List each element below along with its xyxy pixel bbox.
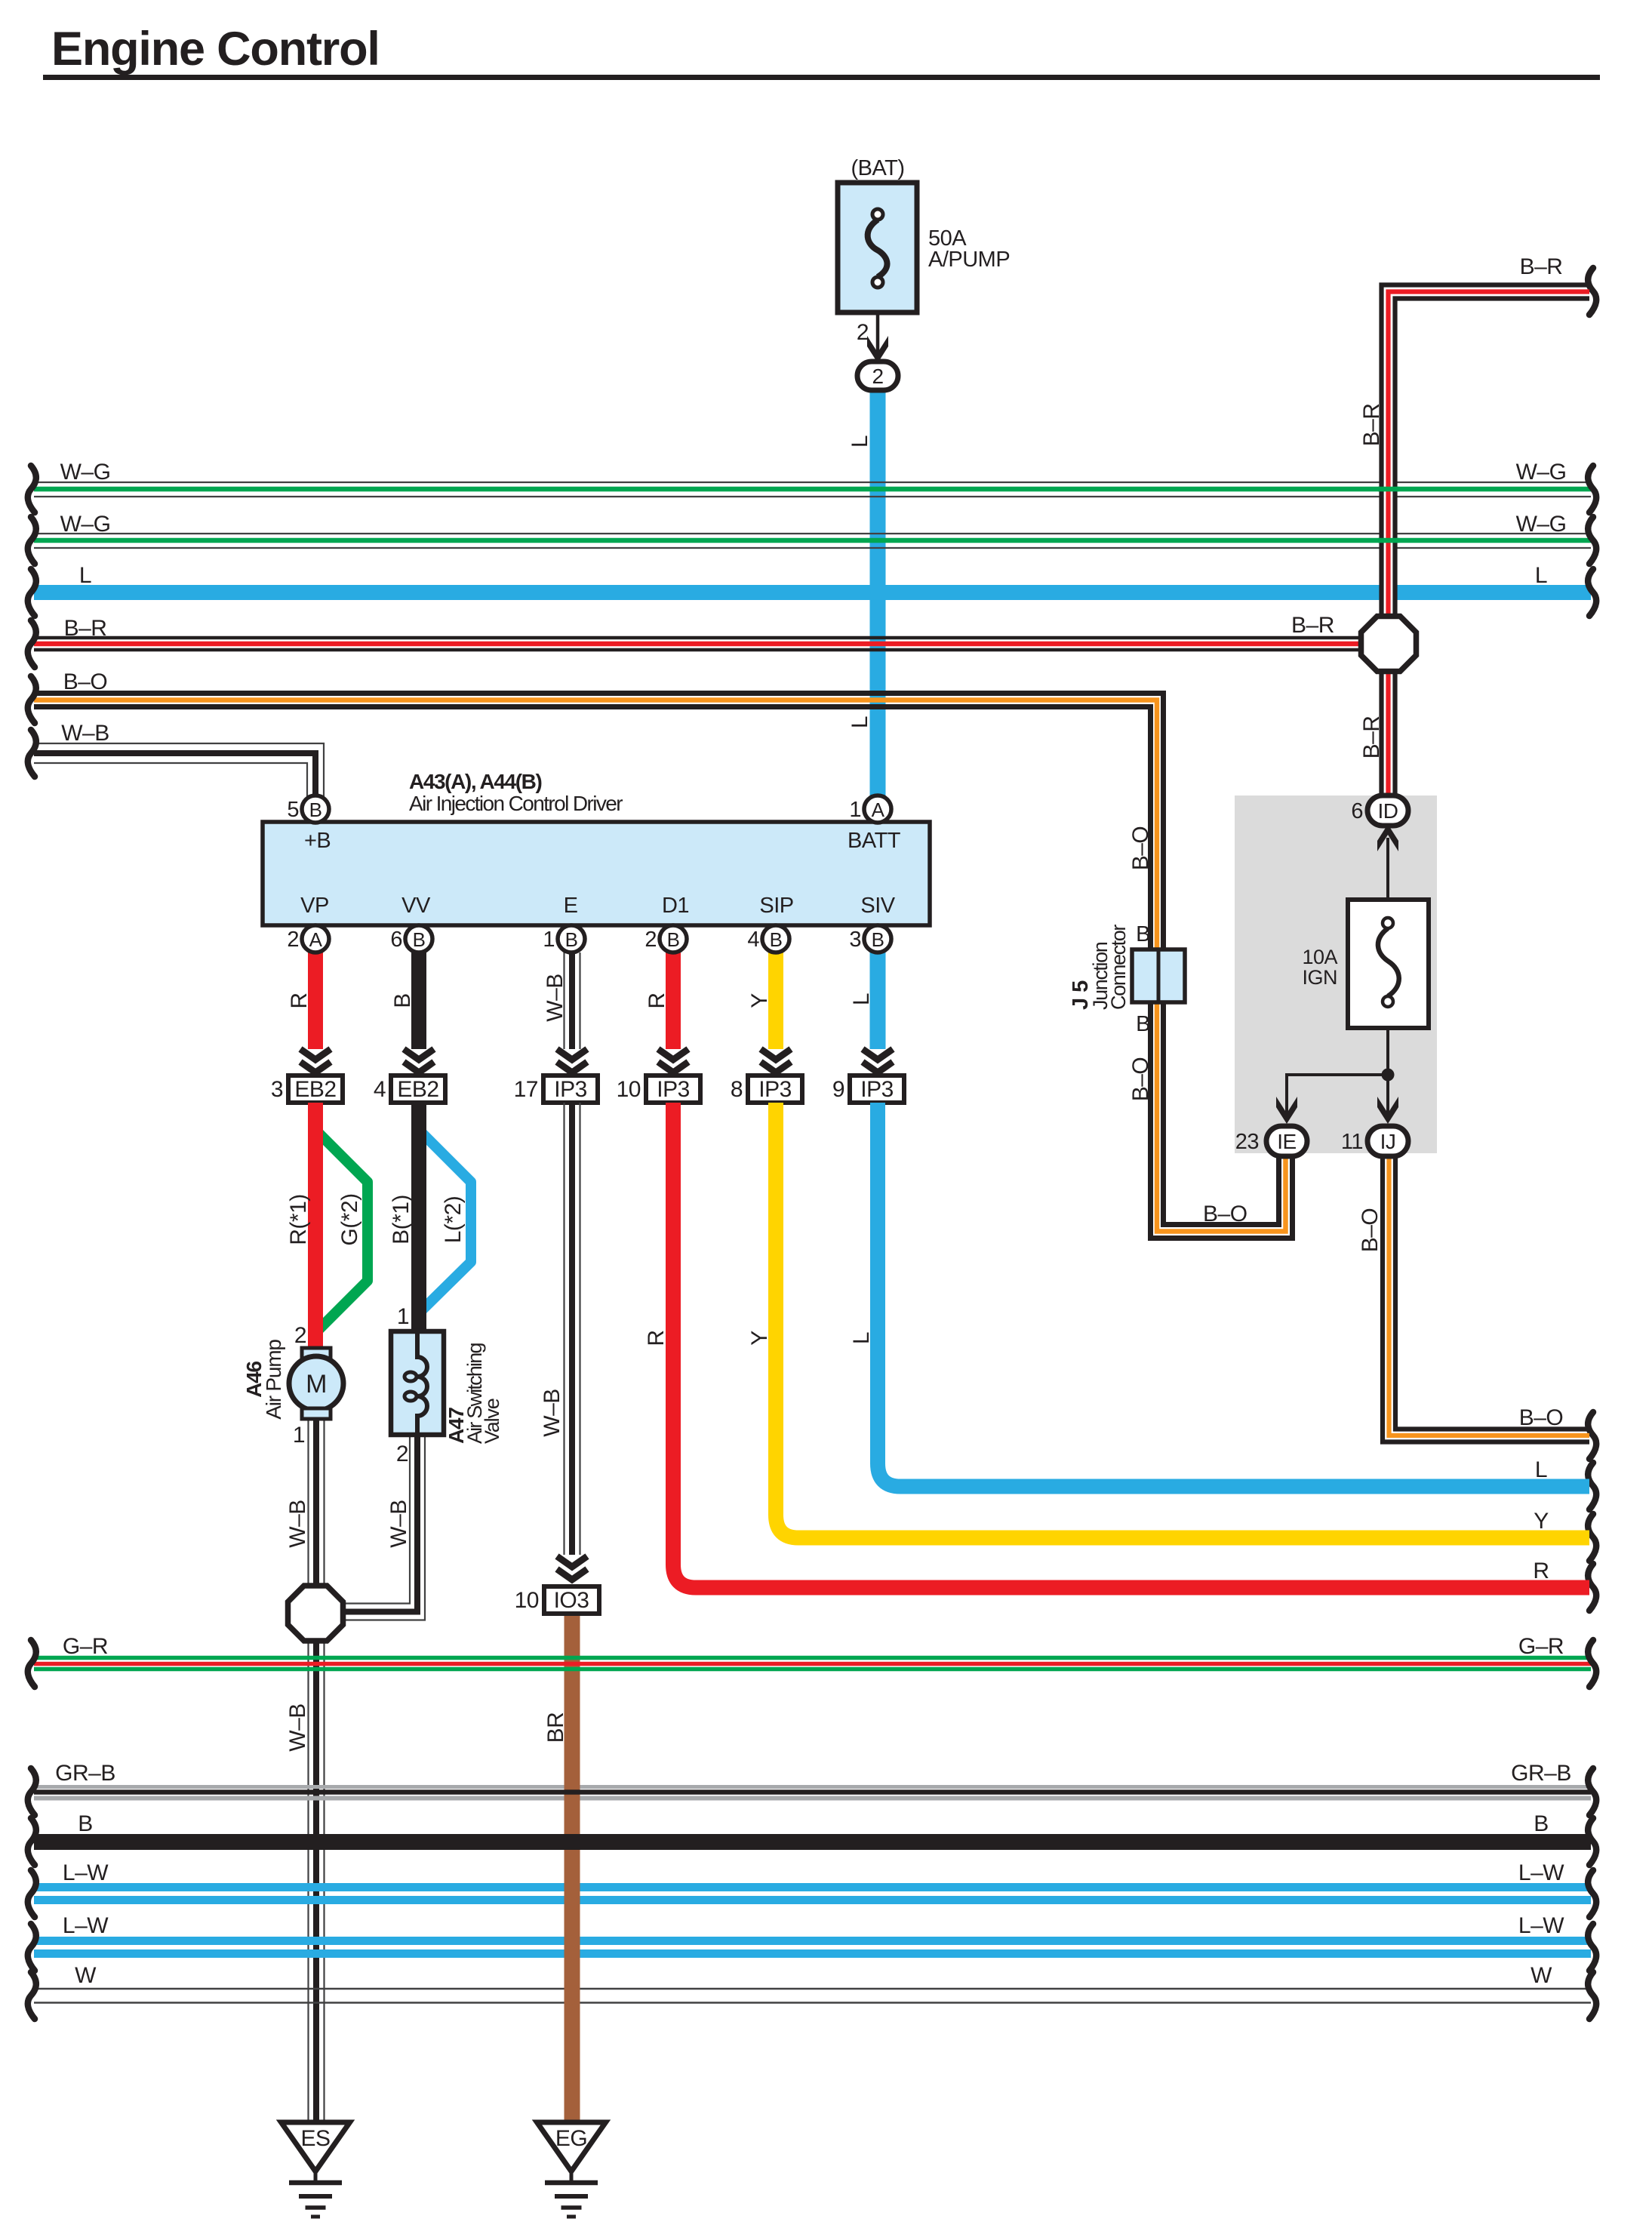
- svg-text:B: B: [872, 928, 884, 951]
- wire W-B bus to pin 5B: [34, 743, 324, 797]
- svg-text:1: 1: [849, 798, 861, 822]
- svg-text:W–B: W–B: [543, 974, 568, 1022]
- svg-text:BR: BR: [543, 1712, 568, 1743]
- svg-text:L–W: L–W: [63, 1913, 109, 1938]
- connector box IP3 pin 10: [646, 1075, 700, 1103]
- white underlay B-R vertical: [1380, 305, 1397, 614]
- wire B-R bus: [34, 636, 1362, 640]
- svg-text:B: B: [667, 928, 680, 951]
- svg-text:IP3: IP3: [860, 1077, 894, 1102]
- arrow chevron SIP wire: [761, 1049, 791, 1060]
- svg-text:L: L: [79, 563, 91, 588]
- fuse 10A IGN box: [1348, 900, 1429, 1028]
- pin circle 4 B SIP: [762, 925, 789, 952]
- svg-text:9: 9: [832, 1077, 844, 1102]
- junction octagon right B-R: [1361, 617, 1417, 672]
- wire branch to IE: [1287, 1075, 1388, 1114]
- arrow chevron VV wire: [404, 1049, 434, 1060]
- motor A46 lower tab: [302, 1408, 331, 1419]
- wire B-O bus through J5 to IE: [34, 694, 1279, 1225]
- break symbol left L-W bus 2: [28, 1924, 36, 1971]
- svg-text:Air Pump: Air Pump: [262, 1340, 285, 1420]
- connector box IP3 pin 8: [748, 1075, 802, 1103]
- junction connector J5 box: [1132, 949, 1185, 1002]
- connector box IP3 pin 9: [850, 1075, 904, 1103]
- svg-text:W–B: W–B: [285, 1703, 310, 1752]
- break symbol right R lower wire: [1588, 1564, 1596, 1611]
- svg-text:6: 6: [390, 928, 402, 952]
- svg-text:W–B: W–B: [61, 721, 109, 746]
- pin circle 6 B VV: [405, 925, 432, 952]
- svg-text:2: 2: [294, 1323, 306, 1348]
- svg-text:IE: IE: [1277, 1130, 1296, 1153]
- wire Y from SIP pin: [768, 952, 783, 1049]
- pin circle 2 A VP: [302, 925, 329, 952]
- pin circle 1 A BATT: [864, 795, 891, 823]
- break symbol right B bus: [1588, 1818, 1596, 1865]
- ground ES: [281, 2122, 350, 2171]
- wire G bypass branch: [315, 1130, 368, 1331]
- break symbol left W-G bus 1: [28, 466, 36, 512]
- break symbol left L bus: [28, 569, 36, 616]
- svg-text:EG: EG: [555, 2126, 587, 2151]
- wire G-R bus: [34, 1656, 1591, 1660]
- junction octagon left W-B: [288, 1586, 343, 1641]
- wire GR-B bus gray stripes: [34, 1785, 1591, 1789]
- wire R from VP pin: [308, 952, 323, 1049]
- svg-text:Y: Y: [747, 993, 772, 1008]
- connector box IP3 pin 17: [543, 1075, 598, 1103]
- svg-text:W–G: W–G: [60, 460, 111, 485]
- svg-text:R: R: [1533, 1559, 1549, 1583]
- svg-text:W: W: [75, 1963, 97, 1988]
- pin circle 3 B SIV: [864, 925, 891, 952]
- wire L SIV to right: [878, 1103, 1589, 1487]
- wire B EB2 to valve: [411, 1103, 426, 1332]
- connector oval IE pin 23: [1266, 1126, 1307, 1156]
- svg-text:5: 5: [287, 798, 299, 822]
- break symbol right W bus: [1588, 1972, 1596, 2019]
- break symbol left W-B bus: [28, 730, 36, 777]
- wire L-W bus 2: [34, 1937, 1591, 1945]
- pin circle 5 B plus-B: [302, 795, 329, 823]
- svg-text:3: 3: [849, 928, 861, 952]
- svg-text:L: L: [848, 435, 872, 448]
- svg-text:4: 4: [374, 1077, 386, 1102]
- svg-text:3: 3: [271, 1077, 283, 1102]
- svg-text:A: A: [872, 799, 885, 821]
- svg-text:W–G: W–G: [60, 512, 111, 537]
- svg-text:B–R: B–R: [1520, 254, 1563, 279]
- svg-text:SIP: SIP: [759, 894, 793, 918]
- wire B bus: [34, 1834, 1591, 1850]
- break symbol right L-W bus 2: [1588, 1924, 1596, 1971]
- svg-text:Air Injection Control Driver: Air Injection Control Driver: [409, 792, 623, 815]
- svg-text:L–W: L–W: [1518, 1860, 1564, 1885]
- pin circle 1 B E: [558, 925, 585, 952]
- wire W-B IP3 to IO3 arrow: [563, 1103, 565, 1555]
- svg-text:B–O: B–O: [1203, 1202, 1247, 1226]
- wire W bus: [34, 1988, 1591, 1989]
- wire R D1 to right: [673, 1103, 1589, 1588]
- svg-text:4: 4: [747, 928, 759, 952]
- arrow chevron IO3: [557, 1556, 587, 1567]
- svg-text:B(*1): B(*1): [389, 1195, 414, 1245]
- connector box EB2 pin 4: [391, 1075, 445, 1103]
- break symbol left W-G bus 2: [28, 517, 36, 564]
- svg-text:G–R: G–R: [63, 1634, 108, 1659]
- arrow solid up ID: [1377, 824, 1398, 851]
- svg-text:Engine Control: Engine Control: [51, 23, 380, 75]
- break symbol right L bus: [1588, 569, 1596, 616]
- svg-text:2: 2: [644, 928, 657, 952]
- break symbol right B-O lower wire: [1588, 1412, 1596, 1459]
- svg-text:W: W: [1530, 1963, 1552, 1988]
- wire L from SIV pin: [870, 952, 886, 1049]
- svg-text:R: R: [644, 1330, 669, 1346]
- svg-text:10A: 10A: [1302, 946, 1337, 968]
- svg-text:D1: D1: [662, 894, 689, 918]
- break symbol right W-G bus 2: [1588, 517, 1596, 564]
- break symbol left GR-B bus: [28, 1768, 36, 1815]
- svg-text:EB2: EB2: [294, 1077, 336, 1102]
- wire ID arrow to fuse: [1386, 838, 1389, 900]
- motor A46 upper tab: [302, 1348, 331, 1359]
- svg-text:IP3: IP3: [758, 1077, 792, 1102]
- connector box EB2 pin 3: [288, 1075, 343, 1103]
- svg-text:G–R: G–R: [1518, 1634, 1564, 1659]
- valve A47 coil: [417, 1331, 427, 1435]
- break symbol right B-R top wire: [1588, 268, 1596, 315]
- wire L vertical fuse to BATT: [870, 385, 886, 797]
- svg-text:IGN: IGN: [1302, 966, 1337, 989]
- svg-text:Y: Y: [1534, 1509, 1549, 1534]
- svg-text:W–B: W–B: [540, 1389, 565, 1437]
- svg-text:B: B: [1136, 922, 1150, 946]
- svg-text:VV: VV: [401, 894, 431, 918]
- svg-text:IP3: IP3: [657, 1077, 690, 1102]
- fuse 50A A/PUMP box: [838, 183, 917, 312]
- svg-text:Y: Y: [747, 1331, 772, 1346]
- break symbol right L lower wire: [1588, 1463, 1596, 1509]
- connector box IO3 pin 10: [544, 1586, 599, 1614]
- break symbol right W-G bus 1: [1588, 466, 1596, 512]
- svg-text:IJ: IJ: [1380, 1130, 1396, 1153]
- svg-text:R(*1): R(*1): [286, 1194, 311, 1245]
- wire B-O IJ to right: [1383, 1158, 1589, 1442]
- svg-text:B–O: B–O: [1128, 1057, 1153, 1102]
- wire fuse to junction dot: [1386, 1028, 1389, 1115]
- svg-text:2: 2: [287, 928, 299, 952]
- wire L bus: [34, 585, 1591, 600]
- svg-text:B–O: B–O: [63, 669, 108, 694]
- svg-text:B–R: B–R: [1359, 404, 1384, 447]
- svg-text:W–B: W–B: [386, 1500, 411, 1548]
- svg-text:2: 2: [872, 365, 883, 388]
- svg-text:B: B: [1136, 1012, 1150, 1036]
- svg-text:1: 1: [543, 928, 555, 952]
- arrow solid down IJ: [1377, 1097, 1398, 1124]
- fuse 10A element: [1378, 928, 1399, 996]
- svg-text:1: 1: [293, 1423, 305, 1448]
- break symbol left W bus: [28, 1972, 36, 2019]
- svg-text:GR–B: GR–B: [1511, 1761, 1571, 1786]
- svg-text:B: B: [309, 799, 322, 821]
- svg-text:B: B: [565, 928, 578, 951]
- wire L-W bus 1: [34, 1883, 1591, 1891]
- wire W-B valve to octagon: [343, 1435, 410, 1604]
- svg-text:A: A: [309, 928, 323, 951]
- break symbol right GR-B bus: [1588, 1768, 1596, 1815]
- wire W-B from E pin: [563, 952, 565, 1049]
- svg-text:E: E: [564, 894, 578, 918]
- break symbol left B-R bus: [28, 620, 36, 667]
- svg-text:6: 6: [1351, 799, 1363, 823]
- wire GR-B bus black stripe: [34, 1789, 1591, 1795]
- svg-text:B–O: B–O: [1358, 1208, 1383, 1253]
- wire W-G green stripes over B-R vertical: [1378, 487, 1399, 492]
- connector oval IJ pin 11: [1367, 1126, 1408, 1156]
- svg-text:L(*2): L(*2): [441, 1196, 466, 1244]
- connector oval 2: [857, 362, 898, 390]
- wire B-R octagon to ID: [1379, 672, 1383, 799]
- svg-text:L: L: [1535, 1457, 1547, 1482]
- ground EG: [537, 2122, 606, 2171]
- svg-text:B–O: B–O: [1128, 826, 1153, 871]
- arrow solid down IE: [1276, 1097, 1297, 1124]
- svg-text:R: R: [287, 992, 312, 1008]
- svg-text:W–G: W–G: [1516, 512, 1567, 537]
- break symbol left B bus: [28, 1818, 36, 1865]
- break symbol left B-O bus: [28, 676, 36, 723]
- svg-text:B–R: B–R: [1291, 613, 1334, 638]
- svg-text:IP3: IP3: [554, 1077, 587, 1102]
- svg-text:10: 10: [617, 1077, 641, 1102]
- svg-text:2: 2: [396, 1442, 408, 1466]
- break symbol left G-R bus: [28, 1640, 36, 1687]
- svg-text:B–O: B–O: [1519, 1405, 1564, 1430]
- svg-text:11: 11: [1341, 1130, 1363, 1154]
- svg-text:BATT: BATT: [848, 829, 901, 853]
- wire W-B motor to octagon: [307, 1419, 309, 1588]
- wire R from D1 pin: [666, 952, 681, 1049]
- svg-text:B–R: B–R: [64, 616, 107, 641]
- svg-text:1: 1: [397, 1304, 409, 1329]
- connector oval ID pin 6: [1367, 795, 1408, 826]
- svg-text:8: 8: [731, 1077, 743, 1102]
- svg-text:B: B: [78, 1811, 93, 1836]
- svg-text:L: L: [849, 993, 874, 1005]
- svg-text:Valve: Valve: [481, 1399, 503, 1444]
- wire W-G bus 2: [34, 533, 1591, 534]
- svg-text:L: L: [848, 716, 872, 728]
- motor A46 body: [289, 1356, 343, 1411]
- svg-text:EB2: EB2: [397, 1077, 438, 1102]
- svg-text:23: 23: [1235, 1130, 1259, 1154]
- svg-text:B: B: [1534, 1811, 1549, 1836]
- svg-text:2: 2: [857, 320, 869, 345]
- junction dot: [1382, 1069, 1395, 1082]
- wire B from VV pin: [411, 952, 426, 1049]
- svg-text:L–W: L–W: [63, 1860, 109, 1885]
- fuse 50A element: [868, 220, 888, 277]
- svg-text:IO3: IO3: [554, 1588, 589, 1613]
- svg-text:VP: VP: [300, 894, 329, 918]
- arrow chevron VP wire: [300, 1049, 331, 1060]
- wire W-G bus 1: [34, 482, 1591, 483]
- break symbol right L-W bus 1: [1588, 1870, 1596, 1917]
- svg-text:B–R: B–R: [1359, 716, 1384, 759]
- svg-text:B: B: [390, 993, 415, 1008]
- svg-text:10: 10: [515, 1588, 539, 1613]
- svg-text:ES: ES: [300, 2126, 330, 2151]
- wire BR brown to EG ground: [565, 1612, 580, 2124]
- svg-text:(BAT): (BAT): [851, 156, 904, 180]
- svg-text:Connector: Connector: [1107, 925, 1130, 1010]
- svg-text:A/PUMP: A/PUMP: [928, 248, 1010, 272]
- svg-text:17: 17: [514, 1077, 538, 1102]
- gray box engine room junction: [1235, 795, 1437, 1153]
- arrow chevron D1 wire: [658, 1049, 688, 1060]
- wire W-B octagon to ES ground: [307, 1639, 309, 2122]
- arrow chevron E wire: [557, 1049, 587, 1060]
- svg-text:B: B: [413, 928, 426, 951]
- svg-text:M: M: [306, 1370, 327, 1399]
- wire fuse to connector 2: [876, 312, 880, 354]
- driver box A43 A44: [263, 822, 930, 925]
- pin circle 2 B D1: [660, 925, 687, 952]
- break symbol left L-W bus 1: [28, 1870, 36, 1917]
- svg-text:GR–B: GR–B: [55, 1761, 115, 1786]
- svg-text:W–B: W–B: [285, 1500, 310, 1548]
- svg-text:G(*2): G(*2): [337, 1193, 362, 1245]
- valve A47 body: [391, 1331, 444, 1435]
- svg-text:+B: +B: [304, 829, 331, 853]
- svg-text:B: B: [770, 928, 783, 951]
- svg-text:L: L: [849, 1332, 874, 1344]
- svg-text:R: R: [644, 992, 669, 1008]
- break symbol right G-R bus: [1588, 1640, 1596, 1687]
- wire L bypass branch: [419, 1130, 471, 1312]
- svg-text:W–G: W–G: [1516, 460, 1567, 485]
- svg-text:ID: ID: [1378, 799, 1398, 823]
- svg-text:A43(A), A44(B): A43(A), A44(B): [409, 770, 541, 793]
- arrow solid down fuse: [867, 336, 888, 363]
- arrow chevron SIV wire: [863, 1049, 893, 1060]
- svg-text:L: L: [1535, 563, 1547, 588]
- wire R EB2 to air pump: [308, 1103, 323, 1349]
- svg-text:L–W: L–W: [1518, 1913, 1564, 1938]
- break symbol right Y lower wire: [1588, 1514, 1596, 1561]
- wire B-R top horizontal and vertical: [1382, 285, 1590, 615]
- wire Y SIP to right: [776, 1103, 1589, 1538]
- svg-text:SIV: SIV: [860, 894, 895, 918]
